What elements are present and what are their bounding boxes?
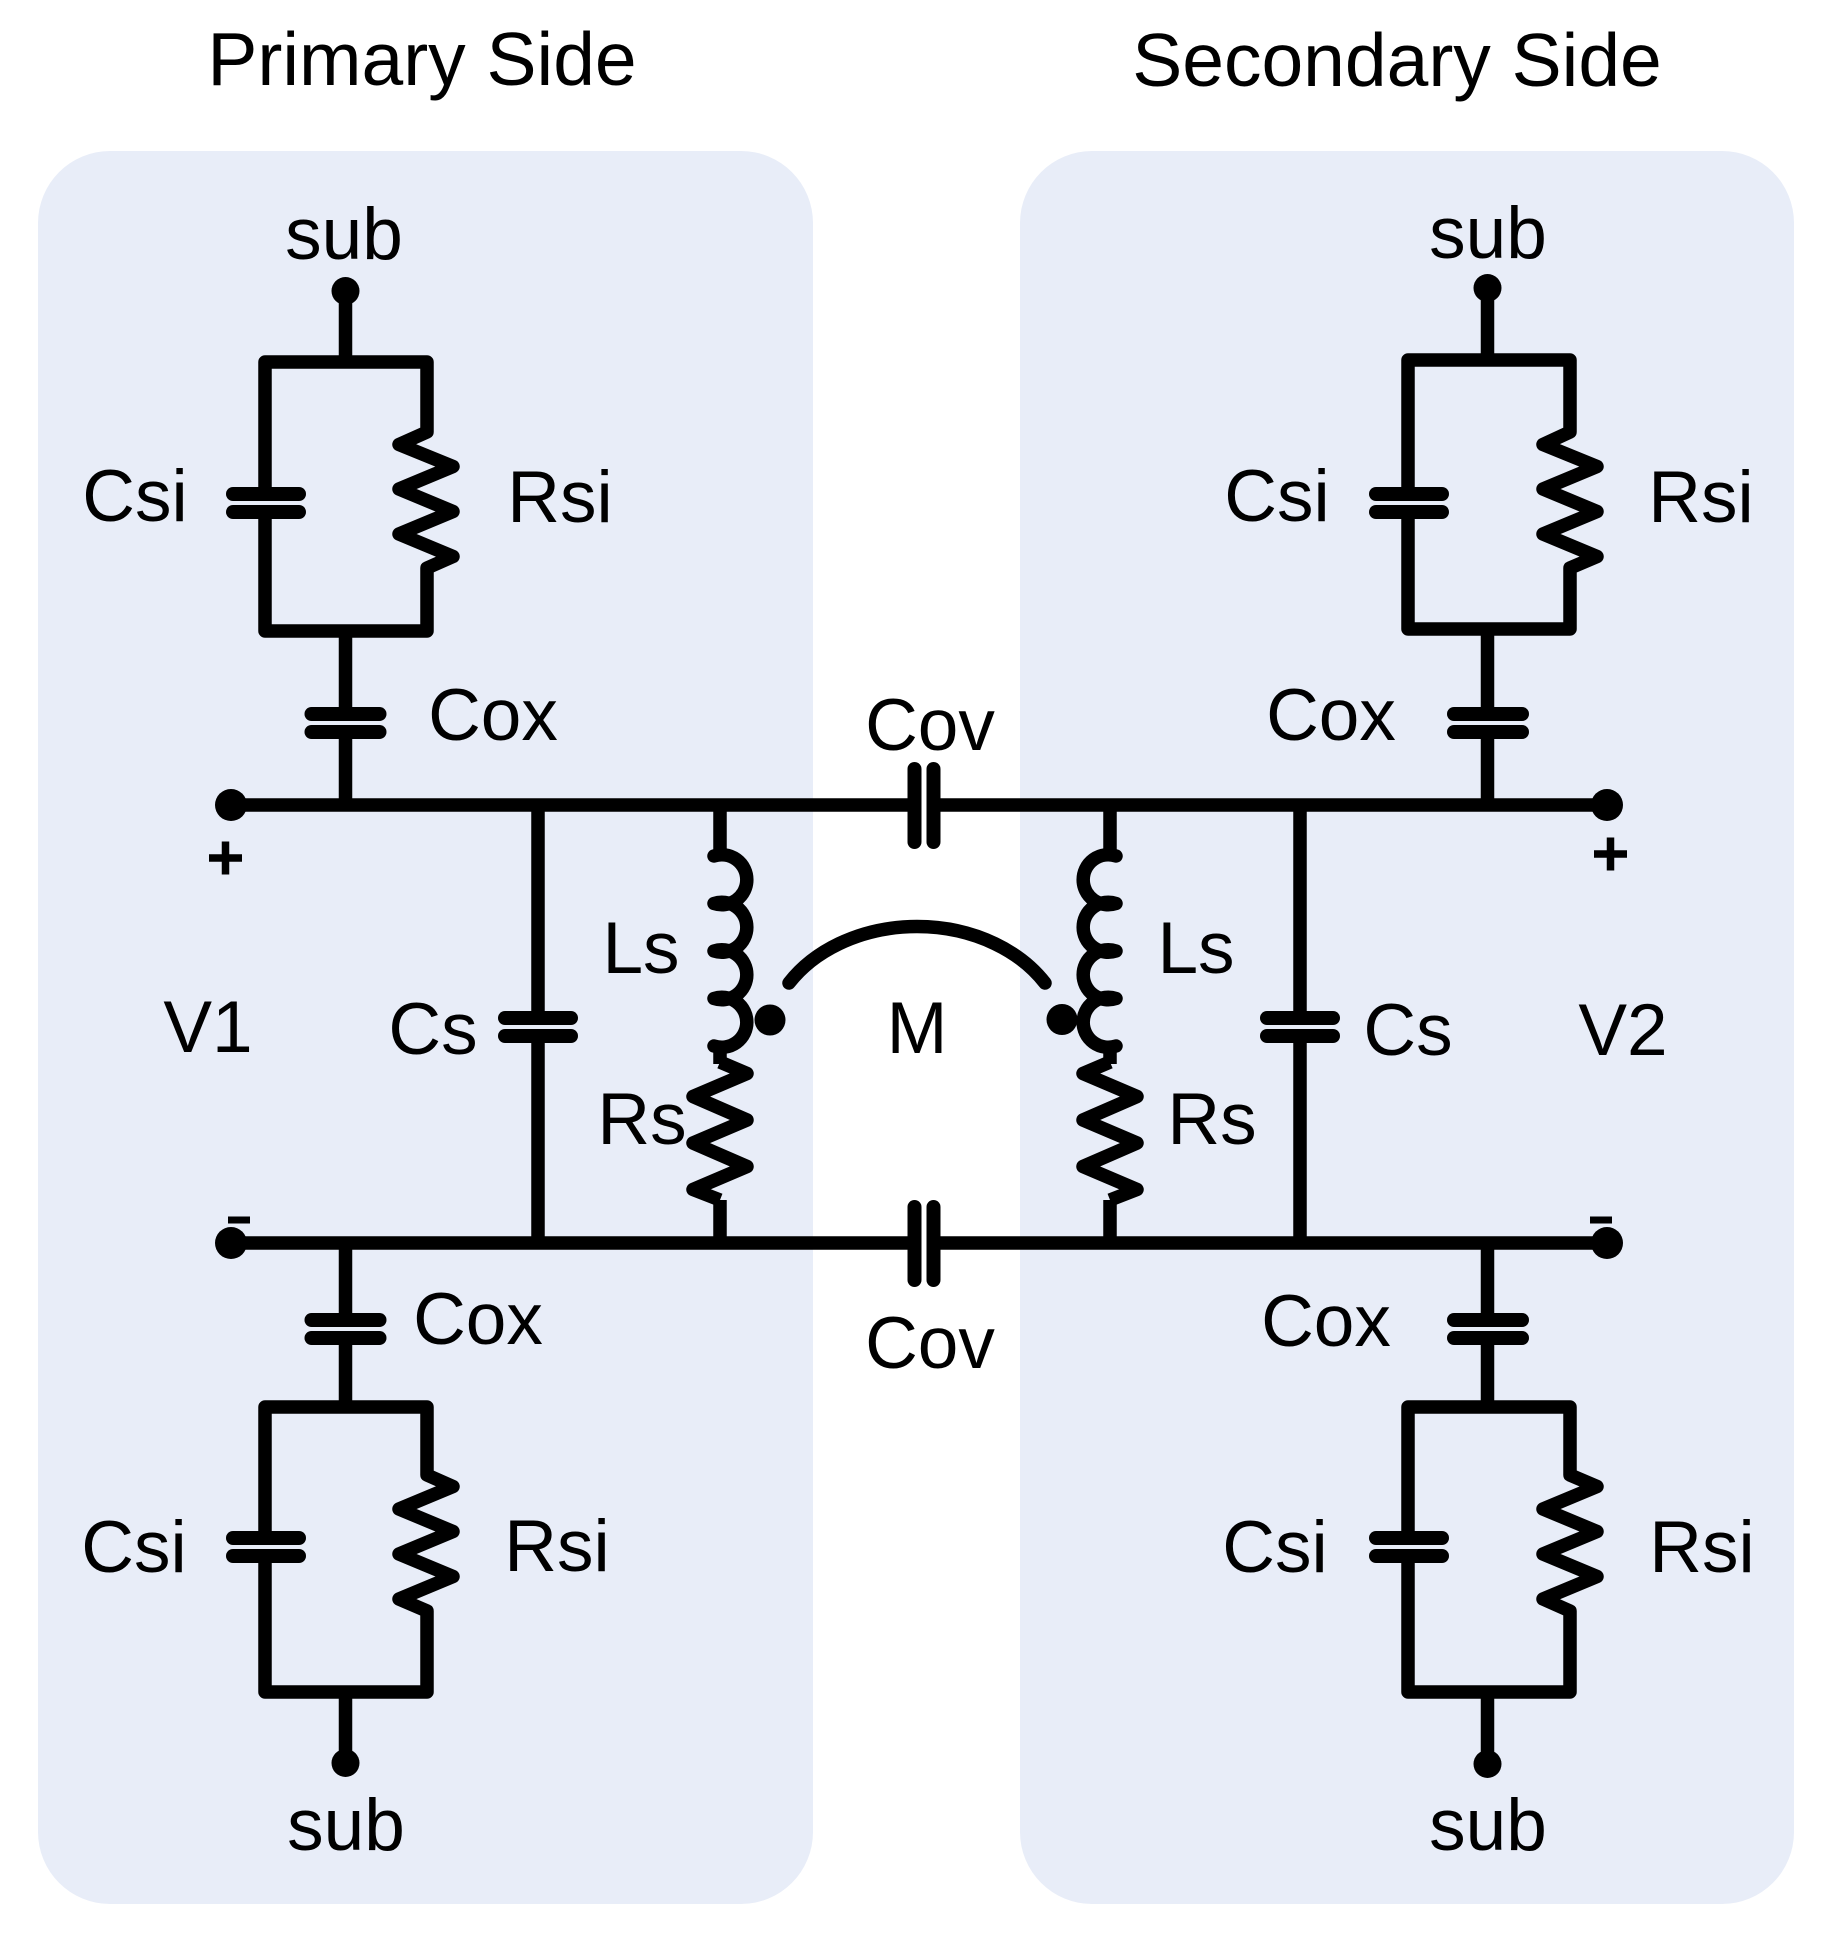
node + terminal dot (top-right) bbox=[1591, 789, 1623, 821]
RC block outline with resistor Rsi (bottom-right) bbox=[1408, 1407, 1597, 1692]
capacitor Csi (top-left) plates bbox=[233, 494, 299, 512]
svg-text:Cox: Cox bbox=[1261, 1281, 1391, 1362]
wire top rail left segment bbox=[231, 798, 909, 812]
capacitor Cox (bottom-left) plates bbox=[312, 1320, 380, 1338]
wire Cox to RC block (bottom-right) bbox=[1481, 1343, 1495, 1407]
polarity dot (right winding) bbox=[1047, 1004, 1078, 1035]
svg-text:Ls: Ls bbox=[602, 908, 679, 989]
svg-text:Rs: Rs bbox=[597, 1079, 686, 1160]
label - (bottom-right) bbox=[1590, 1217, 1612, 1224]
label + (top-left) bbox=[209, 842, 242, 875]
svg-text:Csi: Csi bbox=[81, 1507, 186, 1588]
svg-text:Ls: Ls bbox=[1157, 908, 1234, 989]
svg-text:Csi: Csi bbox=[82, 456, 187, 537]
capacitor Cs (left) plates bbox=[505, 1018, 571, 1036]
primary side panel bbox=[38, 151, 813, 1904]
svg-text:Rs: Rs bbox=[1167, 1079, 1256, 1160]
svg-text:Rsi: Rsi bbox=[1648, 457, 1753, 538]
capacitor Cox (top-left) plates bbox=[312, 714, 380, 732]
wire top rail to inductor Ls (right) bbox=[1103, 805, 1117, 858]
svg-text:sub: sub bbox=[1429, 193, 1547, 274]
capacitor Cov (top) plates bbox=[915, 769, 934, 842]
wire Ls to Rs (left) bbox=[713, 1044, 727, 1064]
wire Cs to bottom rail (right) bbox=[1293, 1041, 1307, 1243]
capacitor Cov (bottom) plates bbox=[915, 1207, 934, 1280]
wire Cox to RC block (bottom-left) bbox=[339, 1343, 353, 1407]
capacitor Csi (bottom-right) plates bbox=[1376, 1538, 1442, 1556]
capacitor Cox (bottom-right) plates bbox=[1454, 1320, 1522, 1338]
svg-text:Rsi: Rsi bbox=[504, 1506, 609, 1587]
svg-text:Cov: Cov bbox=[865, 1303, 995, 1384]
wire Rs to bottom rail (left) bbox=[713, 1200, 727, 1243]
node - terminal dot (bottom-right) bbox=[1591, 1227, 1623, 1259]
wire bottom rail right segment bbox=[939, 1236, 1607, 1250]
node sub (top-left) terminal dot bbox=[332, 277, 360, 305]
svg-text:sub: sub bbox=[285, 194, 403, 275]
RC block outline with resistor Rsi (bottom-left) bbox=[265, 1407, 453, 1692]
svg-text:Cs: Cs bbox=[388, 989, 477, 1070]
svg-text:Csi: Csi bbox=[1224, 456, 1329, 537]
resistor Rs (right) bbox=[1083, 1062, 1137, 1200]
svg-text:Csi: Csi bbox=[1222, 1507, 1327, 1588]
node sub (bottom-left) terminal dot bbox=[332, 1749, 360, 1777]
svg-text:Cox: Cox bbox=[428, 675, 558, 756]
inductor Ls (right) bbox=[1083, 855, 1116, 1048]
node sub (top-right) terminal dot bbox=[1474, 274, 1502, 302]
svg-text:M: M bbox=[887, 988, 948, 1069]
mutual coupling M arc bbox=[789, 927, 1045, 983]
resistor Rs (left) bbox=[693, 1062, 747, 1200]
RC block outline with resistor Rsi (top-right) bbox=[1408, 360, 1597, 629]
wire top rail right segment bbox=[939, 798, 1607, 812]
capacitor Csi (top-right) plates bbox=[1376, 494, 1442, 512]
inductor Ls (left) bbox=[714, 855, 747, 1048]
svg-text:Cov: Cov bbox=[865, 685, 995, 766]
node sub (bottom-right) terminal dot bbox=[1474, 1750, 1502, 1778]
svg-text:sub: sub bbox=[1429, 1785, 1547, 1866]
wire Ls to Rs (right) bbox=[1103, 1044, 1117, 1064]
RC block outline with resistor Rsi (top-left) bbox=[265, 362, 453, 631]
label - (bottom-left) bbox=[228, 1217, 250, 1224]
wire sub terminal to RC block (top-right) bbox=[1481, 288, 1495, 364]
wire bottom rail to Cox (bottom-right) bbox=[1481, 1243, 1495, 1315]
wire RC block to sub terminal (bottom-right) bbox=[1481, 1692, 1495, 1764]
svg-text:Rsi: Rsi bbox=[507, 457, 612, 538]
capacitor Csi (bottom-left) plates bbox=[233, 1538, 299, 1556]
svg-text:V1: V1 bbox=[163, 987, 252, 1068]
svg-text:Rsi: Rsi bbox=[1649, 1507, 1754, 1588]
svg-text:Cox: Cox bbox=[413, 1279, 543, 1360]
svg-text:Primary Side: Primary Side bbox=[207, 17, 636, 101]
wire bottom rail to Cox (bottom-left) bbox=[339, 1243, 353, 1315]
svg-text:Cox: Cox bbox=[1266, 675, 1396, 756]
node - terminal dot (bottom-left) bbox=[215, 1227, 247, 1259]
wire bottom rail left segment bbox=[231, 1236, 909, 1250]
wire RC block to sub terminal (bottom-left) bbox=[339, 1692, 353, 1763]
wire Cox to top rail (top-right) bbox=[1481, 737, 1495, 805]
polarity dot (left winding) bbox=[755, 1005, 786, 1036]
svg-text:Secondary Side: Secondary Side bbox=[1132, 18, 1662, 102]
wire Rs to bottom rail (right) bbox=[1103, 1200, 1117, 1243]
node + terminal dot (top-left) bbox=[215, 789, 247, 821]
wire RC block to Cox (top-right) bbox=[1481, 629, 1495, 709]
capacitor Cox (top-right) plates bbox=[1454, 714, 1522, 732]
svg-text:sub: sub bbox=[287, 1785, 405, 1866]
wire Cox to top rail (top-left) bbox=[339, 737, 353, 805]
wire RC block to Cox (top-left) bbox=[339, 631, 353, 709]
wire Cs to bottom rail (left) bbox=[531, 1041, 545, 1243]
wire top rail to Cs (right) bbox=[1293, 805, 1307, 1013]
svg-text:Cs: Cs bbox=[1363, 990, 1452, 1071]
wire sub terminal to RC block (top-left) bbox=[339, 291, 353, 366]
wire top rail to inductor Ls (left) bbox=[713, 805, 727, 858]
capacitor Cs (right) plates bbox=[1267, 1018, 1333, 1036]
svg-text:V2: V2 bbox=[1578, 990, 1667, 1071]
wire top rail to Cs (left) bbox=[531, 805, 545, 1013]
label + (top-right) bbox=[1594, 838, 1627, 871]
secondary side panel bbox=[1020, 151, 1794, 1904]
